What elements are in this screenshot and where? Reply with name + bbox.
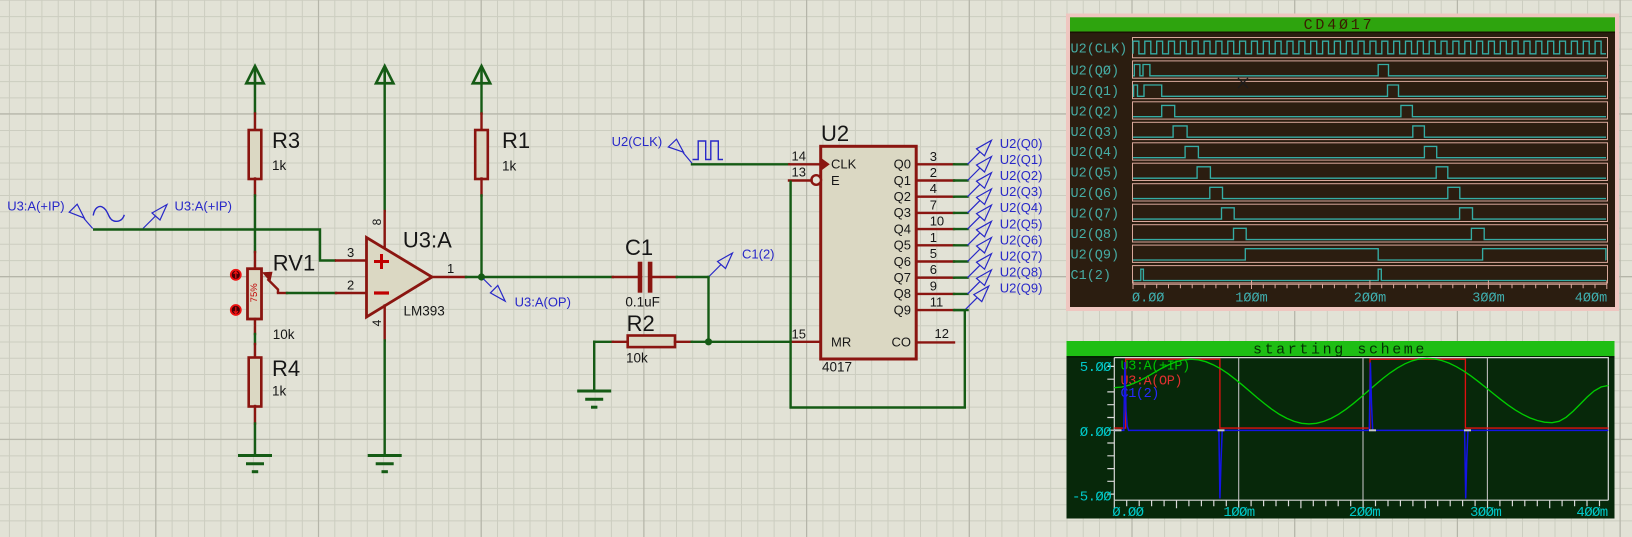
timing row U2(Q6) [1071, 184, 1608, 203]
timing window title bar [1070, 17, 1615, 31]
svg-text:Q9: Q9 [894, 302, 911, 317]
RV1 bottom pin [254, 319, 256, 334]
trace C1(2) blue spikes [1114, 362, 1608, 499]
svg-text:6: 6 [930, 262, 937, 277]
svg-text:Ø.ØØ: Ø.ØØ [1132, 292, 1164, 307]
svg-text:2: 2 [347, 278, 354, 293]
Q5 wire [954, 244, 968, 246]
svg-text:U2(Q9): U2(Q9) [1071, 249, 1120, 264]
svg-text:CD4Ø17: CD4Ø17 [1304, 17, 1375, 34]
RV1 top pin [254, 252, 256, 269]
output wire to C1 [466, 276, 613, 278]
Q9 pin stub [916, 309, 954, 311]
op-amp pin 3 stub [336, 259, 367, 261]
ground stem below R2 [593, 342, 595, 391]
svg-text:Q5: Q5 [894, 238, 911, 253]
svg-text:8: 8 [370, 218, 384, 225]
svg-text:5.ØØ: 5.ØØ [1080, 360, 1111, 376]
svg-text:Ø.ØØ: Ø.ØØ [1080, 425, 1111, 441]
svg-text:C1(2): C1(2) [742, 247, 775, 262]
svg-text:Q6: Q6 [894, 254, 911, 269]
clock input arrow glyph [668, 139, 692, 163]
power arrow VCC above op-amp pin 8 [376, 66, 393, 84]
svg-text:C1(2): C1(2) [1071, 269, 1112, 284]
svg-text:U3:A(OP): U3:A(OP) [515, 295, 571, 310]
svg-text:U2(Q8): U2(Q8) [1071, 228, 1120, 243]
timing row U2(Q5) [1071, 163, 1608, 182]
svg-text:Q1: Q1 [894, 173, 911, 188]
svg-text:U2(QØ): U2(QØ) [1071, 64, 1120, 79]
svg-text:U2(Q7): U2(Q7) [1071, 208, 1120, 223]
potentiometer RV1 body [248, 269, 262, 319]
trace U3:A(OP) red square wave [1114, 359, 1608, 428]
svg-text:RV1: RV1 [273, 251, 315, 276]
svg-text:1: 1 [447, 261, 454, 276]
wire VCC to R1 [480, 84, 482, 113]
svg-text:R2: R2 [627, 311, 655, 336]
net arrow U2(Q5) [968, 221, 992, 245]
svg-text:R3: R3 [272, 128, 300, 153]
ground below op-amp [368, 456, 402, 472]
CLK clock chevron [822, 159, 830, 170]
svg-text:4ØØm: 4ØØm [1575, 292, 1607, 307]
svg-text:CO: CO [892, 335, 912, 350]
svg-text:U2: U2 [821, 121, 849, 146]
svg-text:U2(Q4): U2(Q4) [1071, 146, 1120, 161]
RV1 wiper arrow [268, 279, 279, 293]
resistor R3 [249, 130, 262, 179]
svg-text:R1: R1 [502, 128, 530, 153]
RV1 terminal marker top [231, 270, 241, 280]
svg-text:U2(Q9): U2(Q9) [1000, 281, 1043, 296]
resistor R2 body [628, 336, 675, 348]
Q1 pin stub [916, 179, 954, 181]
svg-text:U2(Q7): U2(Q7) [1000, 249, 1043, 264]
svg-text:U2(Q3): U2(Q3) [1000, 184, 1043, 199]
net arrow U2(Q0) [968, 140, 992, 164]
svg-text:2: 2 [930, 165, 937, 180]
Q2 wire [954, 195, 968, 197]
R4 bottom pin [254, 406, 256, 424]
Q9 wire [954, 309, 968, 311]
sine source glyph [93, 206, 124, 221]
svg-text:4ØØm: 4ØØm [1576, 505, 1607, 521]
svg-text:Ø.ØØ: Ø.ØØ [1112, 505, 1143, 521]
op-amp minus symbol [374, 291, 389, 294]
CO pin stub [916, 341, 954, 343]
svg-text:U2(Q6): U2(Q6) [1071, 187, 1120, 202]
net arrow U2(Q1) [968, 157, 992, 181]
svg-text:4: 4 [370, 319, 384, 326]
svg-text:7: 7 [930, 197, 937, 212]
svg-text:U3:A(+IP): U3:A(+IP) [7, 199, 64, 214]
timing row U2(Q7) [1071, 204, 1608, 222]
net arrow U2(Q6) [968, 238, 992, 262]
Q0 wire [954, 163, 968, 165]
svg-text:U2(Q3): U2(Q3) [1071, 126, 1120, 141]
power arrow VCC above R1 [473, 66, 490, 84]
analogue graph window "starting scheme" [1067, 341, 1615, 519]
timing window x-axis scale [1133, 280, 1607, 289]
svg-text:U2(Q1): U2(Q1) [1071, 85, 1120, 100]
wire down to R2 node [707, 277, 709, 342]
net label U3:A(OP) arrow [484, 279, 506, 301]
timing row U2(QØ) [1071, 61, 1608, 79]
svg-text:1k: 1k [272, 384, 287, 399]
output junction dot [478, 273, 485, 280]
svg-text:1ØØm: 1ØØm [1235, 292, 1267, 307]
input arrow glyph left [69, 204, 93, 228]
wire R2 to junction [692, 341, 709, 343]
net arrow U2(Q7) [968, 254, 992, 278]
R1 bottom pin [480, 179, 482, 196]
graph axis labels [1072, 360, 1608, 521]
wire ground to R2 [594, 341, 613, 343]
op-amp plus symbol [374, 254, 389, 269]
R2 junction dot [705, 338, 712, 345]
ground below R4 [238, 456, 272, 472]
R1 top pin [480, 114, 482, 131]
Q4 wire [954, 228, 968, 230]
svg-text:U2(Q4): U2(Q4) [1000, 200, 1043, 215]
wire Q9 feedback [791, 181, 965, 408]
svg-text:U2(Q5): U2(Q5) [1071, 167, 1120, 182]
R4 top pin [254, 344, 256, 358]
op-amp output pin 1 [431, 276, 466, 278]
svg-text:12: 12 [935, 326, 949, 341]
svg-text:U2(Q0): U2(Q0) [1000, 136, 1043, 151]
svg-text:LM393: LM393 [404, 304, 445, 319]
graph frame [1114, 358, 1608, 501]
svg-text:Q7: Q7 [894, 270, 911, 285]
net arrow U2(Q2) [968, 173, 992, 197]
svg-text:10: 10 [930, 214, 944, 229]
wire CLK label to U2 [692, 163, 789, 165]
timing row C1(2) [1071, 266, 1608, 285]
timing analysis window CD4017 [1066, 14, 1619, 312]
svg-text:U2(CLK): U2(CLK) [1071, 42, 1128, 57]
svg-text:3ØØm: 3ØØm [1472, 292, 1504, 307]
svg-text:Q0: Q0 [894, 157, 911, 172]
svg-text:Q2: Q2 [894, 189, 911, 204]
svg-text:U2(CLK): U2(CLK) [612, 134, 663, 149]
svg-text:2ØØm: 2ØØm [1354, 292, 1386, 307]
net arrow U2(Q8) [968, 270, 992, 294]
svg-text:MR: MR [831, 335, 851, 350]
Q8 wire [954, 293, 968, 295]
trace U3:A(+IP) green sine [1114, 358, 1608, 424]
svg-text:0.1uF: 0.1uF [625, 295, 660, 310]
svg-text:1k: 1k [272, 158, 287, 173]
graph gridlines [1239, 358, 1488, 501]
capacitor C1 [638, 262, 643, 293]
Q7 pin stub [916, 277, 954, 279]
net label C1(2) arrow [709, 253, 733, 277]
Q2 pin stub [916, 195, 954, 197]
svg-text:U2(Q8): U2(Q8) [1000, 265, 1043, 280]
svg-text:E: E [831, 173, 840, 188]
graph axis ticks [1107, 366, 1599, 508]
wire R3 to RV1 [254, 196, 256, 253]
svg-text:5: 5 [930, 246, 937, 261]
Q0 pin stub [916, 163, 954, 165]
svg-text:14: 14 [792, 148, 806, 163]
svg-text:3: 3 [930, 149, 937, 164]
net arrow U2(Q9) [965, 286, 989, 310]
timing row U2(Q1) [1071, 81, 1608, 99]
timing row U2(Q8) [1071, 225, 1608, 243]
graph title bar [1067, 341, 1615, 356]
spike base markers [1115, 429, 1122, 431]
power arrow VCC above R3 [246, 66, 263, 84]
svg-text:-5.ØØ: -5.ØØ [1072, 489, 1111, 505]
svg-text:U2(Q6): U2(Q6) [1000, 232, 1043, 247]
op-amp pin 8 [384, 84, 386, 211]
timing row U2(CLK) [1071, 38, 1608, 58]
svg-text:10k: 10k [273, 327, 295, 342]
op-amp U3:A body [367, 238, 433, 318]
svg-text:1k: 1k [502, 159, 517, 174]
svg-text:15: 15 [792, 326, 806, 341]
graph cursor X mark [1238, 78, 1248, 88]
clock waveform glyph [693, 141, 724, 160]
wire RV1 to R4 [254, 334, 256, 344]
timing row U2(Q3) [1071, 122, 1608, 141]
svg-text:U2(Q2): U2(Q2) [1071, 105, 1120, 120]
timing row U2(Q4) [1071, 143, 1608, 161]
R2 left pin [613, 341, 628, 343]
svg-text:13: 13 [792, 165, 806, 180]
svg-text:C1: C1 [625, 235, 653, 260]
output arrow glyph right of sine [143, 205, 167, 229]
graph legend [1121, 360, 1190, 402]
svg-text:1: 1 [930, 230, 937, 245]
svg-text:3ØØm: 3ØØm [1470, 505, 1501, 521]
R3 top pin [254, 114, 256, 131]
svg-text:11: 11 [930, 295, 944, 310]
ground below R2 [577, 391, 611, 407]
svg-text:3: 3 [347, 245, 354, 260]
svg-text:U2(Q2): U2(Q2) [1000, 168, 1043, 183]
CLK pin stub [789, 163, 820, 165]
svg-text:2ØØm: 2ØØm [1349, 505, 1380, 521]
op-amp pin 2 stub [336, 292, 367, 294]
svg-text:U2(Q1): U2(Q1) [1000, 152, 1043, 167]
C1 right pin [652, 276, 677, 278]
svg-text:75%: 75% [249, 283, 260, 303]
resistor R4 [249, 358, 262, 407]
IC U2 body (4017) [821, 146, 917, 359]
svg-text:CLK: CLK [831, 157, 857, 172]
E inversion bubble [811, 175, 821, 185]
Q8 pin stub [916, 293, 954, 295]
timing row U2(Q2) [1071, 102, 1608, 121]
wiper wire to pin 2 [278, 292, 287, 294]
Q7 wire [954, 277, 968, 279]
svg-text:U3:A(+IP): U3:A(+IP) [175, 199, 232, 214]
svg-text:Q3: Q3 [894, 205, 911, 220]
wire VCC to R3 [254, 84, 256, 113]
Q4 pin stub [916, 228, 954, 230]
E pin stub [789, 179, 812, 181]
svg-text:U2(Q5): U2(Q5) [1000, 216, 1043, 231]
Q1 wire [954, 179, 968, 181]
svg-text:starting scheme: starting scheme [1253, 342, 1427, 359]
svg-text:1ØØm: 1ØØm [1223, 505, 1254, 521]
MR pin stub [791, 341, 821, 343]
Q3 wire [954, 212, 968, 214]
net arrow U2(Q4) [968, 205, 992, 229]
net arrow U2(Q3) [968, 189, 992, 213]
RV1 terminal marker bottom [231, 305, 241, 315]
svg-text:4017: 4017 [822, 360, 852, 375]
wire R4 to ground [254, 424, 256, 456]
svg-text:9: 9 [930, 278, 937, 293]
svg-text:4: 4 [930, 181, 937, 196]
R3 bottom pin [254, 179, 256, 196]
svg-text:Q4: Q4 [894, 221, 911, 236]
op-amp pin 4 [384, 306, 386, 341]
wire R1 to output node [480, 196, 482, 278]
Q5 pin stub [916, 244, 954, 246]
timing row U2(Q9) [1071, 245, 1608, 264]
Q6 pin stub [916, 260, 954, 262]
Q3 pin stub [916, 212, 954, 214]
wire C1 to node C1(2) [677, 276, 709, 278]
resistor R1 [475, 130, 488, 179]
Q6 wire [954, 260, 968, 262]
svg-text:R4: R4 [272, 356, 300, 381]
svg-text:10k: 10k [626, 351, 648, 366]
C1 left pin [613, 276, 638, 278]
wire input to op-amp pin3 [93, 230, 336, 261]
R2 right pin [675, 341, 692, 343]
svg-text:U3:A: U3:A [403, 228, 452, 253]
svg-text:Q8: Q8 [894, 286, 911, 301]
wire junction to MR [709, 341, 792, 343]
